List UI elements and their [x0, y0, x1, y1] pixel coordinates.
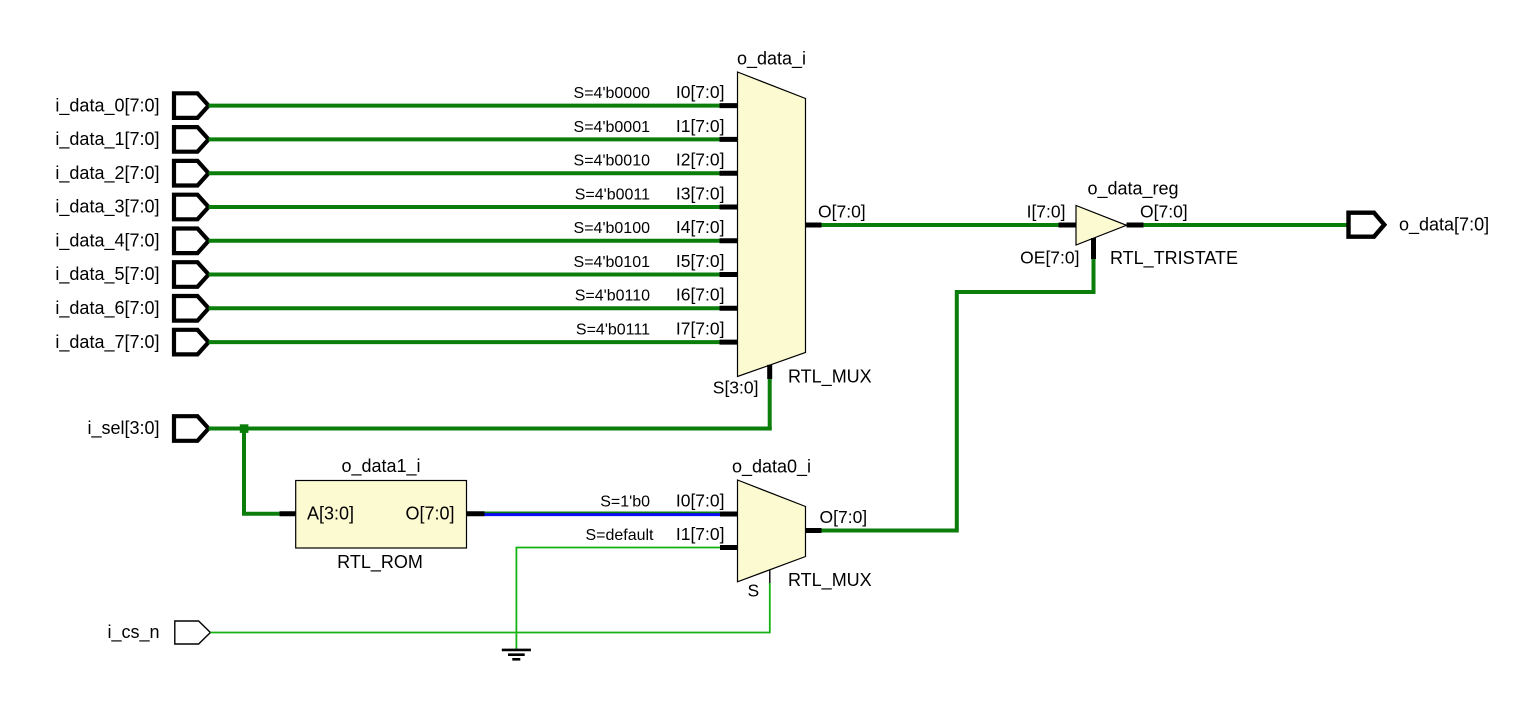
svg-text:RTL_MUX: RTL_MUX [788, 367, 872, 388]
pin label I2[7:0] of mux U1 [676, 150, 725, 170]
pin label O[7:0] of ROM U3 [405, 504, 454, 524]
input port i_data_6[7:0] [174, 296, 209, 321]
svg-text:S=4'b0111: S=4'b0111 [576, 322, 650, 339]
svg-text:I7[7:0]: I7[7:0] [676, 319, 725, 339]
pin label I1[7:0] of mux U1 [676, 116, 725, 136]
svg-text:S[3:0]: S[3:0] [713, 378, 759, 398]
pin stub O[7:0] of tristate U2 (output) [1127, 223, 1144, 228]
svg-text:RTL_TRISTATE: RTL_TRISTATE [1110, 248, 1238, 269]
pin stub O[7:0] of mux U1 (output) [806, 223, 822, 228]
pin label A[3:0] of ROM U3 [307, 504, 354, 524]
label RTL_MUX (type of mux U1) [788, 367, 872, 388]
tristate buffer U2 o_data_reg RTL_TRISTATE body [1076, 206, 1127, 246]
wire bus i_data_2 from port to mux U1 [209, 171, 720, 175]
value label S=4'b0010 for mux U1 pin I2 [574, 153, 651, 170]
svg-text:I0[7:0]: I0[7:0] [676, 490, 725, 510]
svg-text:I4[7:0]: I4[7:0] [676, 217, 725, 237]
pin label I7[7:0] of mux U1 [676, 319, 725, 339]
svg-text:o_data_reg: o_data_reg [1087, 179, 1178, 200]
wire bus i_data_5 from port to mux U1 [209, 273, 720, 277]
label port name i_cs_n [107, 622, 159, 643]
ground symbol GND (const0) [502, 650, 531, 659]
junction node on i_sel net [240, 424, 249, 433]
value label S=4'b0000 for mux U1 pin I0 [574, 85, 651, 102]
svg-text:i_data_3[7:0]: i_data_3[7:0] [55, 197, 159, 218]
value label S=4'b0111 for mux U1 pin I7 [576, 322, 650, 339]
pin stub I4 of mux U1 [720, 238, 739, 243]
svg-text:A[3:0]: A[3:0] [307, 504, 354, 524]
pin stub I5 of mux U1 [720, 272, 739, 277]
input port i_data_0[7:0] [174, 93, 209, 118]
label port name i_data_0[7:0] [55, 95, 159, 116]
label o_data1_i (instance name of ROM U3) [341, 456, 420, 477]
input port i_data_7[7:0] [174, 330, 209, 355]
wire bus from mux U4 output up to tristate U2 OE pin [822, 258, 1094, 531]
pin label I4[7:0] of mux U1 [676, 217, 725, 237]
pin stub A[3:0] of ROM U3 [280, 511, 297, 516]
svg-text:I[7:0]: I[7:0] [1027, 201, 1066, 221]
pin stub I7 of mux U1 [720, 340, 739, 345]
label RTL_MUX (type of mux U4) [788, 570, 872, 591]
svg-text:S=4'b0011: S=4'b0011 [575, 186, 650, 203]
svg-text:O[7:0]: O[7:0] [1140, 201, 1188, 221]
svg-text:I5[7:0]: I5[7:0] [676, 251, 725, 271]
label port name i_data_4[7:0] [55, 231, 159, 252]
svg-text:o_data[7:0]: o_data[7:0] [1399, 214, 1489, 235]
pin label I5[7:0] of mux U1 [676, 251, 725, 271]
pin label O[7:0] of mux U1 [818, 201, 866, 221]
svg-text:O[7:0]: O[7:0] [820, 507, 868, 527]
value label S=4'b0001 for mux U1 pin I1 [574, 119, 651, 136]
input port i_data_2[7:0] [174, 161, 209, 186]
svg-text:O[7:0]: O[7:0] [818, 201, 866, 221]
wire bus from mux U1 output O to tristate U2 input I [822, 223, 1060, 227]
label port name i_data_7[7:0] [55, 332, 159, 353]
svg-text:I1[7:0]: I1[7:0] [676, 524, 725, 544]
label o_data0_i (instance name of mux U4) [732, 456, 811, 477]
pin stub S of mux U4 (bottom select pin, 1-bit) [769, 570, 771, 583]
svg-text:S=4'b0101: S=4'b0101 [574, 254, 651, 271]
input port i_data_1[7:0] [174, 127, 209, 152]
svg-text:S=4'b0010: S=4'b0010 [574, 153, 651, 170]
pin stub I3 of mux U1 [720, 205, 739, 210]
pin stub O[7:0] of ROM U3 [466, 511, 485, 516]
pin stub OE[7:0] of tristate U2 (bottom enable pin) [1091, 238, 1096, 259]
pin label S[3:0] of mux U1 [713, 378, 759, 398]
wire net i_cs_n to mux U4 select pin S [210, 583, 769, 633]
svg-text:i_sel[3:0]: i_sel[3:0] [87, 418, 159, 439]
label port name i_data_1[7:0] [55, 129, 159, 150]
wire bus i_data_3 from port to mux U1 [209, 205, 720, 209]
input port i_cs_n (1-bit) [175, 621, 211, 644]
wire bus i_data_1 from port to mux U1 [209, 137, 720, 141]
label port name i_sel[3:0] [87, 418, 159, 439]
svg-text:OE[7:0]: OE[7:0] [1020, 247, 1079, 267]
pin label I3[7:0] of mux U1 [676, 183, 725, 203]
input port i_data_5[7:0] [174, 262, 209, 287]
label o_data_reg (instance name of tristate U2) [1087, 179, 1178, 200]
value label S=default for mux U4 pin I1 [585, 527, 654, 544]
svg-text:S=4'b0001: S=4'b0001 [574, 119, 651, 136]
svg-text:S=4'b0100: S=4'b0100 [574, 220, 651, 237]
pin stub I2 of mux U1 [720, 171, 739, 176]
svg-text:I1[7:0]: I1[7:0] [676, 116, 725, 136]
wire bus from tristate U2 output to port o_data [1144, 223, 1349, 227]
label RTL_TRISTATE (type of tristate U2) [1110, 248, 1238, 269]
small multiplexer U4 o_data0_i RTL_MUX body [738, 480, 806, 582]
svg-text:i_data_0[7:0]: i_data_0[7:0] [55, 95, 159, 116]
pin label I1[7:0] of mux U4 [676, 524, 725, 544]
pin label S of mux U4 [748, 581, 760, 601]
input port i_sel[3:0] [174, 416, 209, 441]
svg-text:i_data_4[7:0]: i_data_4[7:0] [55, 231, 159, 252]
ROM U3 o_data1_i RTL_ROM body [296, 481, 467, 549]
label port name o_data[7:0] [1399, 214, 1489, 235]
svg-text:o_data1_i: o_data1_i [341, 456, 420, 477]
svg-text:I0[7:0]: I0[7:0] [676, 82, 725, 102]
label port name i_data_6[7:0] [55, 298, 159, 319]
wire bus i_data_0 from port to mux U1 [209, 104, 720, 108]
svg-text:I6[7:0]: I6[7:0] [676, 285, 725, 305]
svg-text:i_data_5[7:0]: i_data_5[7:0] [55, 264, 159, 285]
svg-text:S=1'b0: S=1'b0 [600, 493, 650, 510]
wire bus ROM U3 output (green under-layer) [485, 512, 721, 516]
wire bus ROM U3 output highlighted blue overlay [485, 513, 721, 516]
wire bus i_data_6 from port to mux U1 [209, 306, 720, 310]
wire bus select from i_sel up to mux U1 S pin [768, 379, 772, 431]
label port name i_data_2[7:0] [55, 163, 159, 184]
value label S=4'b0011 for mux U1 pin I3 [575, 186, 650, 203]
value label S=4'b0100 for mux U1 pin I4 [574, 220, 651, 237]
pin stub I0[7:0] of mux U4 [720, 512, 738, 517]
wire bus i_sel horizontal run to select riser [209, 427, 772, 431]
wire bus i_data_4 from port to mux U1 [209, 239, 720, 243]
wire bus i_sel branch down to ROM U3 [242, 429, 280, 514]
pin stub O[7:0] of mux U4 (output) [806, 528, 822, 533]
wire net const0 from ground to mux U4 pin I1 [516, 548, 720, 650]
svg-text:S=4'b0110: S=4'b0110 [575, 288, 650, 305]
value label S=4'b0110 for mux U1 pin I6 [575, 288, 650, 305]
pin stub I[7:0] of tristate U2 [1059, 223, 1077, 228]
pin stub S[3:0] of mux U1 (bottom select pin) [767, 365, 772, 379]
input port i_data_4[7:0] [174, 229, 209, 254]
pin stub I1 of mux U1 [720, 137, 739, 142]
wire bus i_data_7 from port to mux U1 [209, 340, 720, 344]
pin label OE[7:0] of tristate U2 [1020, 247, 1079, 267]
pin stub I0 of mux U1 [720, 103, 739, 108]
svg-text:S=4'b0000: S=4'b0000 [574, 85, 651, 102]
svg-text:o_data_i: o_data_i [737, 48, 806, 69]
pin label I[7:0] of tristate U2 [1027, 201, 1066, 221]
svg-text:RTL_MUX: RTL_MUX [788, 570, 872, 591]
label o_data_i (instance name of mux U1) [737, 48, 806, 69]
pin label I6[7:0] of mux U1 [676, 285, 725, 305]
svg-text:S=default: S=default [585, 527, 654, 544]
svg-text:S: S [748, 581, 760, 601]
pin label I0[7:0] of mux U1 [676, 82, 725, 102]
svg-text:I2[7:0]: I2[7:0] [676, 150, 725, 170]
svg-text:i_data_1[7:0]: i_data_1[7:0] [55, 129, 159, 150]
value label S=1'b0 for mux U4 pin I0 [600, 493, 650, 510]
output port o_data[7:0] [1349, 213, 1385, 237]
svg-text:I3[7:0]: I3[7:0] [676, 183, 725, 203]
label port name i_data_5[7:0] [55, 264, 159, 285]
label port name i_data_3[7:0] [55, 197, 159, 218]
svg-text:i_cs_n: i_cs_n [107, 622, 159, 643]
pin stub I6 of mux U1 [720, 306, 739, 311]
label RTL_ROM (type of ROM U3) [337, 552, 423, 573]
svg-text:O[7:0]: O[7:0] [405, 504, 454, 524]
pin label O[7:0] of tristate U2 [1140, 201, 1188, 221]
svg-text:i_data_7[7:0]: i_data_7[7:0] [55, 332, 159, 353]
svg-text:i_data_6[7:0]: i_data_6[7:0] [55, 298, 159, 319]
value label S=4'b0101 for mux U1 pin I5 [574, 254, 651, 271]
svg-text:RTL_ROM: RTL_ROM [337, 552, 423, 573]
big multiplexer U1 o_data_i RTL_MUX body [738, 72, 806, 377]
pin label O[7:0] of mux U4 [820, 507, 868, 527]
svg-text:o_data0_i: o_data0_i [732, 456, 811, 477]
svg-text:i_data_2[7:0]: i_data_2[7:0] [55, 163, 159, 184]
input port i_data_3[7:0] [174, 195, 209, 220]
pin label I0[7:0] of mux U4 [676, 490, 725, 510]
pin stub I1[7:0] of mux U4 [720, 545, 738, 550]
